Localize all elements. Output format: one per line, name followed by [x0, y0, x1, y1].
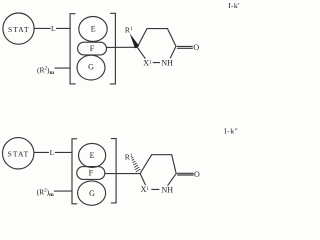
svg-text:X1: X1 — [143, 59, 152, 68]
ring bond top-right to carbonyl C (top) — [168, 29, 177, 47]
wedge bond to R1 (top) — [130, 33, 140, 48]
hashed wedge bond to R1 (bottom) — [132, 157, 141, 171]
right bracket (top) — [110, 13, 115, 84]
ring bond carbonyl C to NH (top) — [170, 46, 176, 58]
svg-text:L: L — [50, 148, 55, 157]
left bracket (top) — [70, 14, 75, 84]
wire L to left bracket (top) — [57, 27, 70, 29]
svg-text:NH: NH — [162, 186, 174, 195]
svg-text:O: O — [194, 170, 200, 179]
svg-text:G: G — [89, 189, 95, 198]
svg-text:F: F — [90, 44, 95, 53]
wire STAT to L (top) — [34, 27, 50, 29]
ring bond left-vertex to X1 (bottom) — [140, 174, 145, 185]
circle E (bottom) — [79, 143, 106, 167]
ring bond left-vertex to X1 (top) — [137, 47, 145, 58]
ring bond top edge (top) — [147, 28, 168, 30]
oval F (bottom) — [77, 167, 105, 180]
C=O double bond (bottom) — [178, 172, 194, 174]
ring bond X1 to NH (bottom) — [152, 188, 159, 190]
svg-text:I-k″: I-k″ — [224, 127, 238, 136]
svg-text:E: E — [91, 25, 96, 34]
ring bond carbonyl C to NH (bottom) — [168, 174, 176, 186]
svg-text:NH: NH — [161, 59, 173, 68]
svg-text:R1: R1 — [125, 153, 133, 162]
C=O double bond (top) — [177, 45, 192, 47]
ring bond left-vertex to top-left (bottom) — [140, 155, 152, 174]
wire STAT to L (bottom) — [34, 151, 49, 153]
circle G (bottom) — [78, 181, 106, 205]
circle G (top) — [77, 55, 105, 80]
svg-text:E: E — [90, 151, 95, 160]
right bracket (bottom) — [111, 139, 116, 203]
STAT circle (bottom) — [3, 138, 34, 169]
svg-text:F: F — [89, 169, 94, 178]
STAT circle (top) — [3, 13, 34, 44]
svg-text:R1: R1 — [125, 26, 133, 35]
oval F (top) — [78, 42, 107, 55]
left bracket (bottom) — [72, 139, 77, 204]
circle E (top) — [79, 17, 107, 42]
svg-text:STAT: STAT — [8, 25, 30, 34]
ring bond top edge (bottom) — [152, 154, 172, 156]
svg-text:O: O — [193, 43, 199, 52]
svg-text:G: G — [88, 62, 94, 71]
svg-text:(R2)m: (R2)m — [37, 65, 55, 76]
wire (R2)m to bracket (top) — [55, 67, 70, 69]
svg-text:(R2)m: (R2)m — [37, 187, 55, 198]
ring bond X1 to NH (top) — [153, 62, 159, 64]
svg-text:I-k′: I-k′ — [228, 1, 240, 10]
svg-text:STAT: STAT — [8, 150, 30, 159]
wire F to ring (top) — [107, 46, 138, 48]
wire (R2)m to bracket (bottom) — [54, 190, 72, 192]
svg-text:L: L — [51, 24, 56, 33]
wire F to ring (bottom) — [105, 173, 140, 175]
wire L to left bracket (bottom) — [55, 151, 72, 153]
ring bond top-right to carbonyl C (bottom) — [172, 155, 177, 174]
ring bond left-vertex to top-left (top) — [137, 29, 147, 48]
svg-text:X1: X1 — [141, 185, 150, 194]
